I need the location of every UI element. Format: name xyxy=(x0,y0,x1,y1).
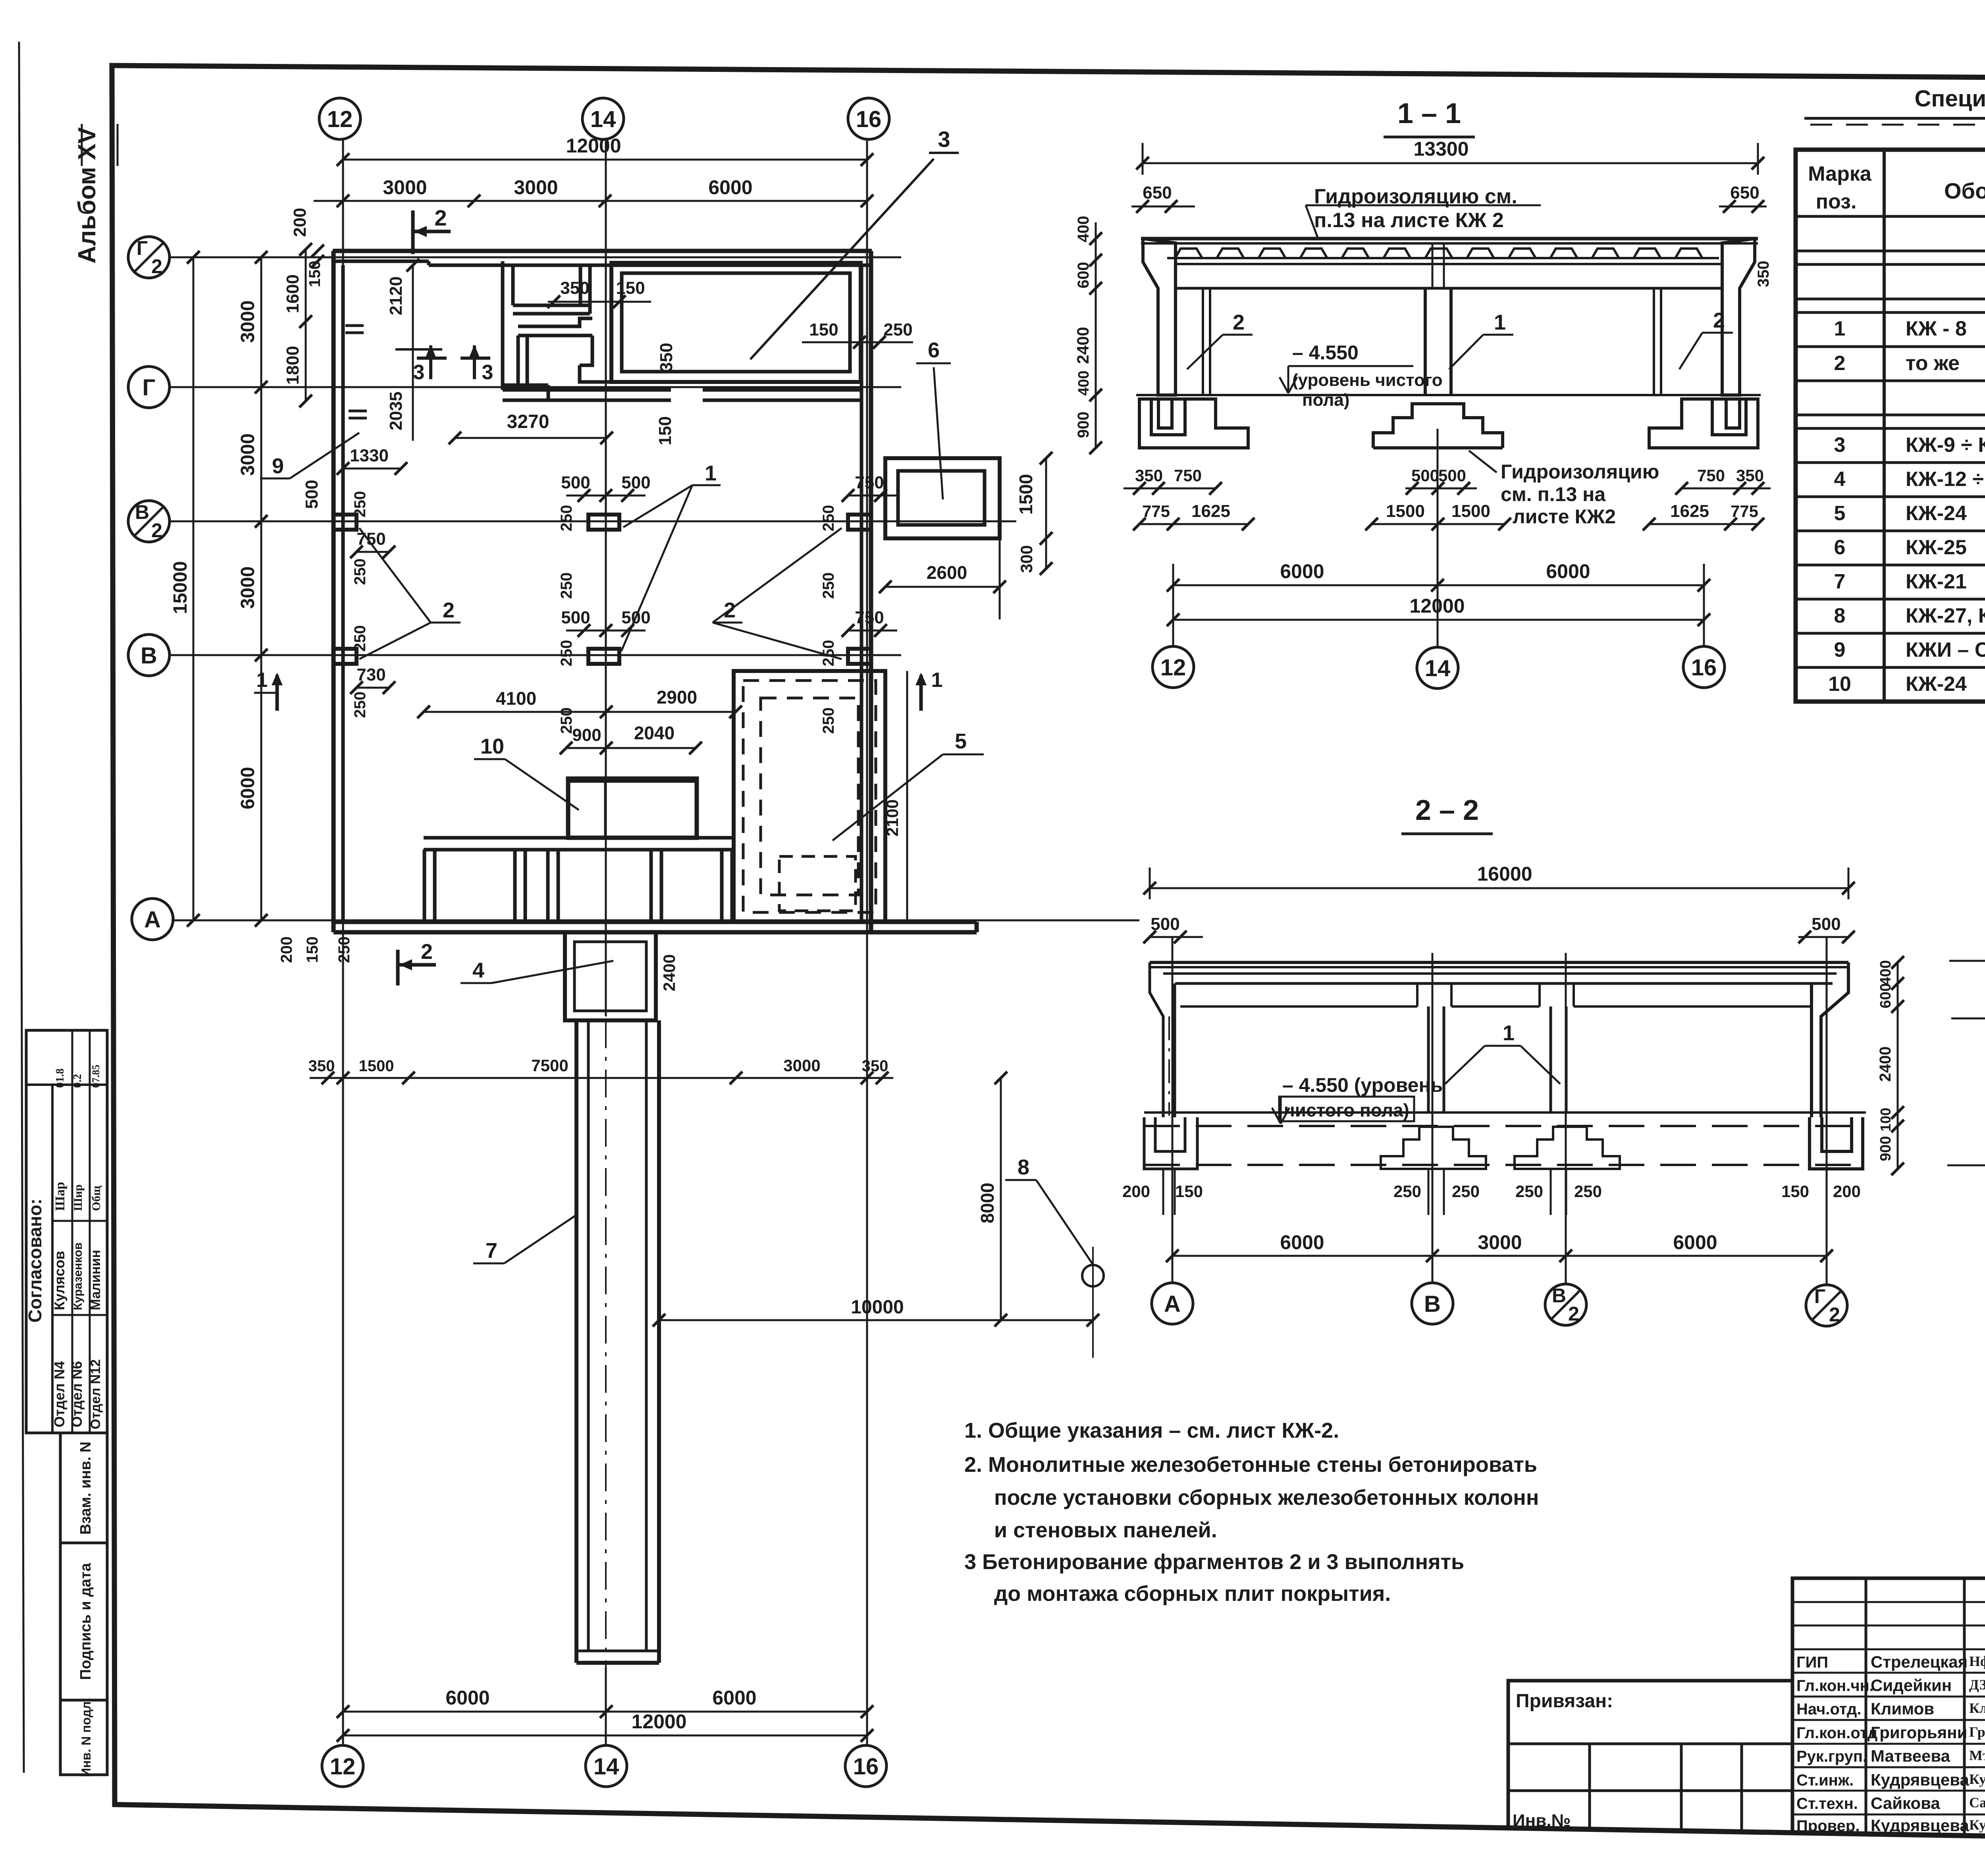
1-1 left foundation xyxy=(1139,399,1248,448)
closet room walls xyxy=(513,304,590,307)
2-2 wall A centerline xyxy=(1168,1016,1170,1116)
svg-text:КЖ-25: КЖ-25 xyxy=(1906,536,1967,559)
2-2 foundation pit A xyxy=(1144,1117,1197,1169)
svg-text:200: 200 xyxy=(290,208,310,237)
corridor mid wall xyxy=(518,318,592,335)
2-2 dim 16000 xyxy=(1150,887,1848,889)
svg-text:КЖ-12 ÷ КЖ-14: КЖ-12 ÷ КЖ-14 xyxy=(1906,468,1985,491)
svg-text:КЖ-24: КЖ-24 xyxy=(1906,502,1967,525)
dim 15000 vertical xyxy=(193,257,195,920)
grid axis V horizontal xyxy=(170,654,901,656)
svg-text:3000: 3000 xyxy=(237,301,258,343)
svg-text:750: 750 xyxy=(357,529,385,549)
svg-text:Спецификация конструкций к: Спецификация конструкций к схеме располо… xyxy=(1915,86,1985,112)
svg-text:2120: 2120 xyxy=(386,276,406,315)
axis circle A left xyxy=(132,898,173,940)
1-1 dims 1500 1500 xyxy=(1372,523,1505,525)
svg-text:Кудрявцева: Кудрявцева xyxy=(1871,1770,1969,1789)
svg-text:Ст.техн.: Ст.техн. xyxy=(1796,1795,1858,1812)
svg-text:2: 2 xyxy=(151,255,162,278)
axis circle V/2 left xyxy=(128,501,170,542)
svg-text:100: 100 xyxy=(1877,1108,1894,1132)
svg-text:750: 750 xyxy=(1174,466,1202,485)
svg-text:Отдел N4: Отдел N4 xyxy=(51,1361,67,1427)
svg-text:1500: 1500 xyxy=(1016,474,1036,515)
svg-text:250: 250 xyxy=(883,320,912,339)
dim 750 right pilasters xyxy=(848,495,897,497)
svg-text:400: 400 xyxy=(1075,370,1092,395)
dim 900 2040 foundation xyxy=(566,747,696,749)
svg-text:16: 16 xyxy=(856,106,882,132)
1-1 right foundation xyxy=(1649,399,1758,448)
svg-text:400: 400 xyxy=(1877,960,1894,985)
svg-text:2 – 2: 2 – 2 xyxy=(1415,794,1479,826)
pilaster 12/V xyxy=(333,649,357,664)
dim 500 500 column V xyxy=(566,630,646,632)
svg-text:Отдел N12: Отдел N12 xyxy=(88,1359,103,1429)
svg-text:то же: то же xyxy=(1906,352,1960,375)
section marker 2 top xyxy=(411,210,415,254)
svg-text:КЖ-9 ÷ КЖ-11: КЖ-9 ÷ КЖ-11 xyxy=(1906,434,1985,457)
1-1 dim 13300 xyxy=(1143,162,1758,164)
svg-text:А: А xyxy=(1164,1291,1181,1317)
plan bottom wall A xyxy=(333,920,977,924)
svg-text:1500: 1500 xyxy=(1386,501,1425,521)
svg-text:Григорьяни: Григорьяни xyxy=(1871,1723,1967,1742)
svg-text:Ст.инж.: Ст.инж. xyxy=(1796,1772,1854,1789)
svg-text:Гл.кон.чн.: Гл.кон.чн. xyxy=(1796,1677,1874,1695)
svg-text:650: 650 xyxy=(1730,183,1759,202)
axis circle 16 bottom xyxy=(845,1745,887,1787)
section marker 1 bottom-right xyxy=(919,675,923,711)
svg-text:6000: 6000 xyxy=(708,176,752,199)
svg-text:4: 4 xyxy=(472,958,484,982)
svg-text:Согласовано:: Согласовано: xyxy=(25,1199,45,1323)
svg-text:– 4.550 (уровень: – 4.550 (уровень xyxy=(1282,1074,1443,1096)
svg-text:5: 5 xyxy=(955,729,967,753)
svg-text:2: 2 xyxy=(421,940,433,964)
svg-text:чистого пола): чистого пола) xyxy=(1284,1100,1409,1120)
svg-text:600: 600 xyxy=(1075,262,1092,289)
svg-text:6: 6 xyxy=(928,338,940,362)
svg-text:КЖ - 8: КЖ - 8 xyxy=(1906,317,1967,340)
svg-text:14: 14 xyxy=(1425,656,1451,681)
pilaster 16/V xyxy=(848,649,871,664)
svg-text:8: 8 xyxy=(1834,604,1846,627)
1-1 axis circle 12 xyxy=(1152,646,1194,688)
2-2 column V2 xyxy=(1549,1006,1552,1113)
1-1 axis circle 16 xyxy=(1683,646,1725,688)
2-2 axis circle A xyxy=(1152,1283,1193,1324)
svg-text:2040: 2040 xyxy=(634,723,675,743)
plan left wall xyxy=(331,251,336,932)
svg-text:1625: 1625 xyxy=(1670,501,1709,521)
soglasovano table xyxy=(26,1030,107,1433)
1-1 post right xyxy=(1653,288,1655,395)
2-2 dim 500 right xyxy=(1798,936,1850,938)
grid axis A horizontal xyxy=(172,920,1139,922)
2-2 dim 6000 3000 6000 xyxy=(1172,1255,1827,1257)
svg-text:после установки сборных жел: после установки сборных железобетонных к… xyxy=(994,1486,1539,1510)
column at 14/V xyxy=(588,649,619,664)
left dim chain 3000x3 6000 xyxy=(260,257,262,920)
room step jog xyxy=(580,335,611,382)
tunnel pos7 left wall xyxy=(574,1020,578,1663)
svg-text:2: 2 xyxy=(1829,1303,1840,1326)
2-2 beam underside xyxy=(1180,1005,1417,1008)
svg-text:350: 350 xyxy=(1135,466,1163,485)
svg-text:ГИП: ГИП xyxy=(1796,1654,1828,1671)
svg-text:2400: 2400 xyxy=(1073,327,1092,364)
svg-text:1330: 1330 xyxy=(350,446,389,465)
tunnel centerline xyxy=(605,1020,607,1668)
svg-text:250: 250 xyxy=(351,559,369,585)
compartment partition walls xyxy=(423,850,426,922)
svg-text:150: 150 xyxy=(1781,1182,1809,1201)
plan wall on axis G xyxy=(503,388,671,392)
1-1 dim 12000 xyxy=(1173,619,1704,621)
svg-text:8000: 8000 xyxy=(977,1183,998,1223)
svg-text:775: 775 xyxy=(1142,502,1170,521)
2-2 underground dashed lines xyxy=(1144,1125,1866,1127)
svg-text:Общ: Общ xyxy=(90,1186,103,1211)
svg-text:3: 3 xyxy=(938,127,950,152)
svg-text:4100: 4100 xyxy=(496,688,536,709)
svg-text:1: 1 xyxy=(1503,1021,1515,1045)
svg-text:В: В xyxy=(1552,1284,1566,1307)
svg-text:2: 2 xyxy=(434,205,447,230)
1-1 beam band xyxy=(1176,263,1723,265)
svg-text:Марка: Марка xyxy=(1808,162,1872,185)
svg-text:6000: 6000 xyxy=(445,1687,490,1709)
svg-text:Инв. N подл.: Инв. N подл. xyxy=(79,1698,93,1777)
svg-text:150: 150 xyxy=(1175,1182,1203,1201)
1-1 right column K16 xyxy=(1722,239,1755,395)
svg-text:9: 9 xyxy=(272,454,284,478)
svg-text:14: 14 xyxy=(590,106,616,132)
axis circle G left xyxy=(128,366,170,408)
svg-text:2035: 2035 xyxy=(386,391,406,430)
svg-text:п.13 на листе КЖ 2: п.13 на листе КЖ 2 xyxy=(1314,209,1504,232)
svg-text:6000: 6000 xyxy=(1546,560,1590,582)
tunnel pos7 right wall xyxy=(657,1020,661,1663)
pilaster 12/V2 xyxy=(333,515,357,530)
svg-text:– 4.550: – 4.550 xyxy=(1292,341,1359,364)
svg-text:1. Общие указания – см. лис: 1. Общие указания – см. лист КЖ-2. xyxy=(964,1419,1339,1442)
dim 500 500 column V2 xyxy=(566,495,646,497)
1-1 dims 775 1625 xyxy=(1139,523,1248,525)
dim 12000 bottom xyxy=(343,1735,867,1737)
svg-text:Инв.№: Инв.№ xyxy=(1513,1811,1571,1830)
2-2 foundation pit G2 xyxy=(1810,1117,1863,1169)
svg-text:15000: 15000 xyxy=(170,561,191,614)
svg-text:Нфу: Нфу xyxy=(1969,1653,1985,1669)
dim 730 left pilaster lower xyxy=(357,687,389,689)
svg-text:6000: 6000 xyxy=(1280,560,1324,582)
svg-text:Куз: Куз xyxy=(1969,1817,1985,1833)
1-1 left vertical dims xyxy=(1095,222,1097,448)
2-2 axis circle V xyxy=(1412,1283,1453,1324)
privyazan box xyxy=(1508,1681,1792,1833)
dim 12000 top xyxy=(343,159,867,161)
svg-text:1: 1 xyxy=(931,669,943,692)
svg-text:500: 500 xyxy=(1438,466,1466,485)
section marker 2 bottom xyxy=(396,950,400,985)
dim 1330 xyxy=(343,468,401,470)
pit PRm2 pos6 xyxy=(885,458,1000,538)
svg-text:07.85: 07.85 xyxy=(90,1065,102,1088)
svg-text:1 – 1: 1 – 1 xyxy=(1397,98,1461,129)
svg-text:1: 1 xyxy=(705,461,717,485)
svg-text:12: 12 xyxy=(327,106,353,132)
2-2 column V xyxy=(1427,1006,1430,1113)
1-1 post left xyxy=(1202,288,1204,395)
svg-text:до монтажа сборных плит по: до монтажа сборных плит покрытия. xyxy=(994,1582,1391,1606)
svg-text:Подпись и дата: Подпись и дата xyxy=(77,1563,94,1680)
corridor left wall xyxy=(516,335,520,385)
svg-text:250: 250 xyxy=(351,491,369,518)
svg-text:2400: 2400 xyxy=(1877,1047,1894,1082)
svg-text:Куд: Куд xyxy=(1969,1771,1985,1787)
grid axis 12 vertical xyxy=(342,139,344,1745)
2-2 foundation V steps xyxy=(1381,1127,1486,1169)
svg-text:14: 14 xyxy=(594,1754,619,1780)
2-2 floor line xyxy=(1144,1111,1866,1114)
svg-text:1800: 1800 xyxy=(283,346,303,385)
left margin boxes xyxy=(60,1433,107,1543)
svg-text:Гри: Гри xyxy=(1969,1724,1985,1740)
svg-text:Сай: Сай xyxy=(1969,1795,1985,1810)
names table xyxy=(1792,1578,1985,1837)
foundation FOM1 pos10 xyxy=(568,779,697,838)
svg-text:500: 500 xyxy=(1812,914,1840,934)
svg-text:250: 250 xyxy=(1393,1182,1421,1201)
svg-text:КЖ-27, КЖ-28: КЖ-27, КЖ-28 xyxy=(1906,604,1985,627)
svg-text:16: 16 xyxy=(853,1754,879,1780)
svg-text:и стеновых панелей.: и стеновых панелей. xyxy=(994,1518,1217,1542)
2-2 slab xyxy=(1150,961,1848,964)
dim 350 150 room xyxy=(548,301,651,303)
1-1 dims 350 750 left xyxy=(1124,488,1216,490)
svg-text:250: 250 xyxy=(335,937,353,963)
axis break marks xyxy=(345,324,364,327)
svg-text:2: 2 xyxy=(1233,310,1245,334)
plan top wall xyxy=(333,249,872,253)
svg-text:7: 7 xyxy=(1834,570,1846,593)
dim chain 350 1500 7500 3000 350 xyxy=(310,1077,893,1079)
1-1 dims 1625 775 xyxy=(1649,523,1758,525)
svg-text:150: 150 xyxy=(809,320,838,339)
svg-text:600: 600 xyxy=(1877,983,1894,1008)
svg-text:250: 250 xyxy=(1515,1182,1543,1201)
svg-text:250: 250 xyxy=(558,505,575,532)
svg-text:Кудрявцева: Кудрявцева xyxy=(1871,1816,1969,1835)
axis circle 12 bottom xyxy=(322,1745,363,1787)
interior wall x1266 xyxy=(501,261,505,390)
svg-text:350: 350 xyxy=(560,278,589,298)
svg-text:12000: 12000 xyxy=(631,1710,686,1733)
left trim line xyxy=(19,42,24,1773)
svg-text:1625: 1625 xyxy=(1191,501,1230,521)
svg-text:Гидроизоляцию: Гидроизоляцию xyxy=(1501,461,1659,483)
svg-text:КЖИ – СТ2: КЖИ – СТ2 xyxy=(1906,638,1985,661)
svg-text:(уровень чистого: (уровень чистого xyxy=(1292,370,1443,390)
svg-text:1: 1 xyxy=(1834,317,1846,340)
svg-text:250: 250 xyxy=(351,692,369,718)
svg-text:13300: 13300 xyxy=(1413,138,1469,160)
svg-text:0.2: 0.2 xyxy=(71,1074,84,1088)
svg-text:Привязан:: Привязан: xyxy=(1516,1691,1613,1712)
svg-text:1: 1 xyxy=(1494,310,1506,334)
svg-text:6000: 6000 xyxy=(1280,1231,1324,1253)
dim 2600 pit xyxy=(885,586,1000,588)
dim 750 left pilaster xyxy=(357,551,389,553)
svg-text:10000: 10000 xyxy=(851,1297,904,1318)
axis circle 14 bottom xyxy=(586,1745,627,1787)
1-1 center column K14 xyxy=(1424,288,1427,395)
svg-text:Сайкова: Сайкова xyxy=(1871,1794,1940,1812)
svg-text:2900: 2900 xyxy=(657,687,697,708)
svg-text:2: 2 xyxy=(1834,352,1846,375)
bottom compartment wall band xyxy=(424,836,732,840)
svg-text:1500: 1500 xyxy=(1451,501,1490,521)
dim 3270 xyxy=(455,437,607,439)
svg-text:150: 150 xyxy=(304,937,321,963)
spec table grid xyxy=(1796,150,1985,702)
dim 2120 2035 chain xyxy=(412,265,414,441)
svg-text:350: 350 xyxy=(657,343,676,372)
svg-text:10: 10 xyxy=(1828,673,1851,696)
1-1 floor line xyxy=(1136,394,1761,396)
svg-text:4: 4 xyxy=(1834,468,1846,491)
svg-text:8: 8 xyxy=(1018,1155,1029,1179)
svg-text:250: 250 xyxy=(820,505,837,532)
1-1 dims 500 500 center xyxy=(1405,488,1477,490)
svg-text:КЖ-21: КЖ-21 xyxy=(1906,570,1967,593)
column at 14/V2 xyxy=(588,515,619,530)
svg-text:Г: Г xyxy=(137,237,148,259)
svg-text:Стрелецкая: Стрелецкая xyxy=(1871,1652,1968,1671)
svg-text:150: 150 xyxy=(306,261,324,287)
svg-text:3: 3 xyxy=(482,361,493,384)
pilaster 16/V2 xyxy=(848,515,871,530)
svg-text:6000: 6000 xyxy=(712,1687,756,1709)
svg-text:01.8: 01.8 xyxy=(54,1068,66,1088)
svg-text:Кл: Кл xyxy=(1969,1700,1985,1716)
plan right wall xyxy=(860,265,863,922)
svg-text:Куразенков: Куразенков xyxy=(71,1242,85,1310)
svg-text:Рук.груп.: Рук.груп. xyxy=(1796,1748,1867,1765)
svg-text:1: 1 xyxy=(256,669,268,692)
svg-text:1500: 1500 xyxy=(359,1057,394,1075)
svg-text:9: 9 xyxy=(1834,638,1846,661)
svg-text:3 Бетонирование фрагментов: 3 Бетонирование фрагментов 2 и 3 выполня… xyxy=(964,1550,1464,1574)
svg-text:2. Монолитные железобетонные: 2. Монолитные железобетонные стены бетон… xyxy=(964,1453,1537,1477)
tunnel bottom cap xyxy=(576,1650,659,1652)
svg-text:поз.: поз. xyxy=(1816,190,1857,213)
svg-text:7: 7 xyxy=(486,1239,497,1263)
2-2 dim 500 left xyxy=(1150,936,1203,938)
svg-text:350: 350 xyxy=(308,1057,335,1075)
svg-text:900: 900 xyxy=(1075,412,1092,438)
svg-text:775: 775 xyxy=(1731,502,1758,521)
2-2 foundation V2 steps xyxy=(1515,1127,1620,1169)
emergency exit inner dashed pit xyxy=(779,856,856,911)
svg-text:2100: 2100 xyxy=(883,799,902,836)
svg-text:Малинин: Малинин xyxy=(88,1250,103,1310)
svg-text:750: 750 xyxy=(855,473,884,492)
svg-text:3: 3 xyxy=(413,361,425,384)
svg-text:2: 2 xyxy=(151,519,162,542)
emergency exit pos5 walls xyxy=(734,671,885,922)
svg-text:6000: 6000 xyxy=(1673,1231,1717,1253)
svg-text:350: 350 xyxy=(1736,466,1764,485)
svg-text:3000: 3000 xyxy=(237,567,258,609)
dim 6000 6000 bottom xyxy=(343,1711,867,1713)
dim 8000 vertical xyxy=(1000,1078,1002,1320)
svg-text:3270: 3270 xyxy=(507,411,549,432)
svg-text:5: 5 xyxy=(1834,502,1846,525)
svg-text:16000: 16000 xyxy=(1477,863,1532,885)
1-1 dim 650 650 xyxy=(1131,206,1195,208)
svg-text:пола): пола) xyxy=(1302,390,1349,410)
svg-text:12: 12 xyxy=(1160,655,1186,681)
vent shaft below wall A xyxy=(565,932,656,1020)
svg-text:6000: 6000 xyxy=(237,767,258,810)
svg-text:3000: 3000 xyxy=(783,1056,820,1075)
axis circle V left xyxy=(128,634,170,676)
axis circle 14 top xyxy=(582,98,624,139)
svg-text:Шир: Шир xyxy=(71,1184,85,1211)
dim 4100 2900 xyxy=(424,711,736,713)
svg-text:250: 250 xyxy=(558,573,575,599)
svg-text:12000: 12000 xyxy=(566,135,621,157)
svg-text:В: В xyxy=(141,643,157,669)
dim 1500 pit xyxy=(1045,458,1047,538)
svg-text:300: 300 xyxy=(1017,545,1036,573)
2-2 axis circle G2 xyxy=(1806,1285,1847,1326)
section marker 3 pair xyxy=(429,345,432,379)
svg-text:А: А xyxy=(144,907,161,933)
svg-text:см. п.13 на: см. п.13 на xyxy=(1501,483,1606,505)
svg-text:2: 2 xyxy=(443,598,455,622)
2-2 axis stubs xyxy=(1172,937,1174,1282)
svg-text:3000: 3000 xyxy=(1478,1231,1522,1253)
dim 1600 1800 chain xyxy=(305,249,307,401)
svg-text:Шар: Шар xyxy=(53,1182,67,1211)
2-2 axis circle V2 xyxy=(1545,1284,1586,1325)
svg-text:Г: Г xyxy=(143,375,156,401)
corridor foot wall xyxy=(504,384,548,387)
svg-text:Мт: Мт xyxy=(1969,1747,1985,1763)
svg-text:КЖ-24: КЖ-24 xyxy=(1906,673,1967,696)
svg-text:400: 400 xyxy=(1075,216,1092,243)
1-1 dims 750 350 right xyxy=(1682,488,1771,490)
svg-text:200: 200 xyxy=(278,937,295,963)
1-1 axis circle 14 xyxy=(1417,647,1458,688)
svg-text:6: 6 xyxy=(1834,536,1846,559)
svg-text:730: 730 xyxy=(357,665,385,684)
svg-text:2400: 2400 xyxy=(660,954,678,991)
svg-text:3000: 3000 xyxy=(237,434,258,476)
grid axis G horizontal xyxy=(170,386,901,388)
1-1 center foundation steps xyxy=(1373,404,1503,448)
svg-text:750: 750 xyxy=(1697,466,1725,485)
svg-text:3: 3 xyxy=(1834,434,1846,457)
svg-text:2600: 2600 xyxy=(927,562,967,583)
svg-text:Сидейкин: Сидейкин xyxy=(1871,1676,1952,1695)
svg-text:В: В xyxy=(1424,1291,1441,1317)
